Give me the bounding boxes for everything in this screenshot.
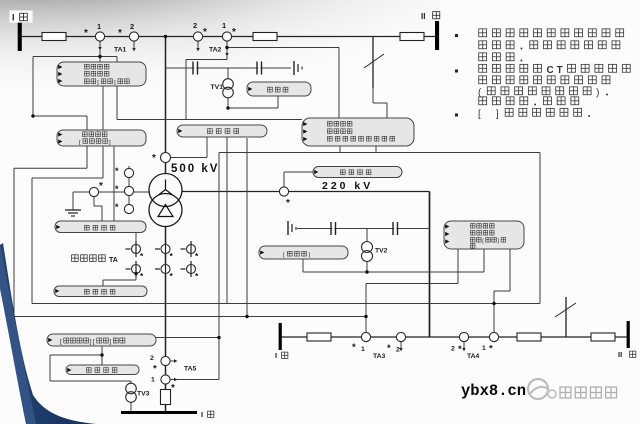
svg-text:[: [ [478,109,481,120]
svg-text:*: * [115,202,119,212]
svg-text:I: I [275,351,277,360]
svg-text:TA1: TA1 [114,47,127,54]
svg-text:*: * [352,342,356,353]
svg-text:TA4: TA4 [467,353,480,360]
svg-text:*: * [152,153,156,164]
svg-text:II: II [618,350,622,359]
svg-text:*: * [153,364,157,375]
svg-text:2: 2 [396,347,400,354]
svg-text:TV1: TV1 [211,84,224,91]
svg-text:2: 2 [150,355,154,362]
svg-text:*: * [286,198,290,209]
svg-text:1: 1 [361,346,365,353]
svg-text:]: ] [496,109,499,120]
svg-text:TV2: TV2 [375,248,388,255]
svg-text:*: * [171,383,175,394]
svg-text:220 kV: 220 kV [322,180,373,192]
svg-text:I: I [201,410,203,419]
svg-text:*: * [115,166,119,176]
svg-text:TV3: TV3 [137,391,150,398]
svg-text:*: * [99,181,103,192]
svg-text:*: * [115,184,119,194]
svg-text:TA2: TA2 [209,47,222,54]
svg-text:1: 1 [97,22,101,31]
svg-text:): ) [596,88,599,99]
svg-text:]: ] [110,339,112,346]
svg-text:*: * [84,28,88,39]
svg-text:TA5: TA5 [184,366,197,373]
svg-text:C: C [547,65,554,76]
svg-text:I: I [12,13,15,23]
svg-text:1: 1 [151,377,155,384]
svg-text:500 kV: 500 kV [171,163,219,175]
svg-text:[: [ [93,339,95,346]
svg-text:2: 2 [193,21,197,30]
svg-text:*: * [387,343,391,354]
svg-text:1: 1 [482,345,486,352]
svg-text:*: * [118,28,122,39]
svg-text:1: 1 [222,21,226,30]
svg-text:*: * [203,27,207,38]
svg-text:*: * [232,27,236,38]
svg-text:II: II [421,12,425,21]
svg-text:[: [ [60,339,62,346]
svg-text:TA3: TA3 [373,353,386,360]
svg-text:TA: TA [109,257,118,264]
svg-text:ybx8.cn: ybx8.cn [461,382,526,400]
svg-text:*: * [489,344,493,355]
svg-text:T: T [557,65,563,76]
svg-text:]: ] [90,339,92,346]
svg-text:2: 2 [130,22,134,31]
svg-text:*: * [458,344,462,355]
svg-text:2: 2 [451,346,455,353]
